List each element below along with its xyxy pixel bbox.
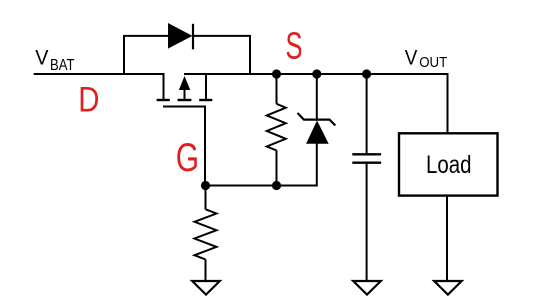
transistor Q1 channel bar right xyxy=(199,99,212,101)
transistor Q1 source stub xyxy=(205,74,207,100)
label VOUT xyxy=(405,45,448,71)
wire load bottom to ground xyxy=(446,196,448,281)
zener diode Z1 top lead xyxy=(316,74,318,121)
transistor Q1 body arrow xyxy=(179,76,190,90)
diode D1 body-parallel triangle xyxy=(168,23,192,49)
wire source rail to VOUT corner xyxy=(184,73,448,75)
transistor Q1 channel bar middle xyxy=(178,99,192,101)
svg-text:OUT: OUT xyxy=(419,54,447,71)
zener diode Z1 cathode bar with hooks xyxy=(298,113,336,126)
node junction dot zener top xyxy=(312,69,321,78)
capacitor C1 bottom lead xyxy=(366,163,368,281)
zener diode Z1 anode triangle xyxy=(306,121,329,144)
svg-text:G: G xyxy=(176,136,199,180)
capacitor C1 bottom plate xyxy=(352,161,381,163)
capacitor C1 top plate xyxy=(352,153,381,155)
node G junction dot xyxy=(201,181,210,190)
wire diode loop top right segment xyxy=(193,35,251,37)
wire VBAT input rail xyxy=(34,73,165,75)
wire diode loop left leg xyxy=(123,35,125,74)
zener diode Z1 bottom lead xyxy=(316,143,318,187)
svg-text:S: S xyxy=(286,25,303,67)
svg-text:Load: Load xyxy=(426,151,472,179)
ground symbol under load xyxy=(434,281,462,295)
capacitor C1 top lead xyxy=(366,74,368,154)
svg-text:D: D xyxy=(78,81,99,120)
svg-text:V: V xyxy=(405,45,418,69)
wire gate bottom rail xyxy=(205,185,317,187)
node S junction dot at resistor R1 top xyxy=(272,69,281,78)
wire VOUT corner down to load xyxy=(447,73,449,134)
transistor Q1 channel bar left xyxy=(157,99,170,101)
node junction dot capacitor top xyxy=(362,69,371,78)
svg-text:V: V xyxy=(35,46,49,70)
diode D1 cathode bar xyxy=(192,24,194,50)
load box xyxy=(399,133,498,195)
transistor Q1 gate line xyxy=(163,107,205,187)
resistor R1 gate-source xyxy=(267,74,286,186)
transistor Q1 drain stub xyxy=(163,74,165,100)
ground symbol under C1 xyxy=(353,281,381,295)
ground symbol under R2 xyxy=(192,281,220,295)
label VBAT xyxy=(35,46,74,75)
wire diode loop right leg xyxy=(249,35,251,74)
svg-text:BAT: BAT xyxy=(50,57,75,74)
resistor R2 gate pulldown xyxy=(195,186,217,282)
wire diode loop top left segment xyxy=(123,35,168,37)
node junction dot resistor R1 bottom xyxy=(272,181,281,190)
